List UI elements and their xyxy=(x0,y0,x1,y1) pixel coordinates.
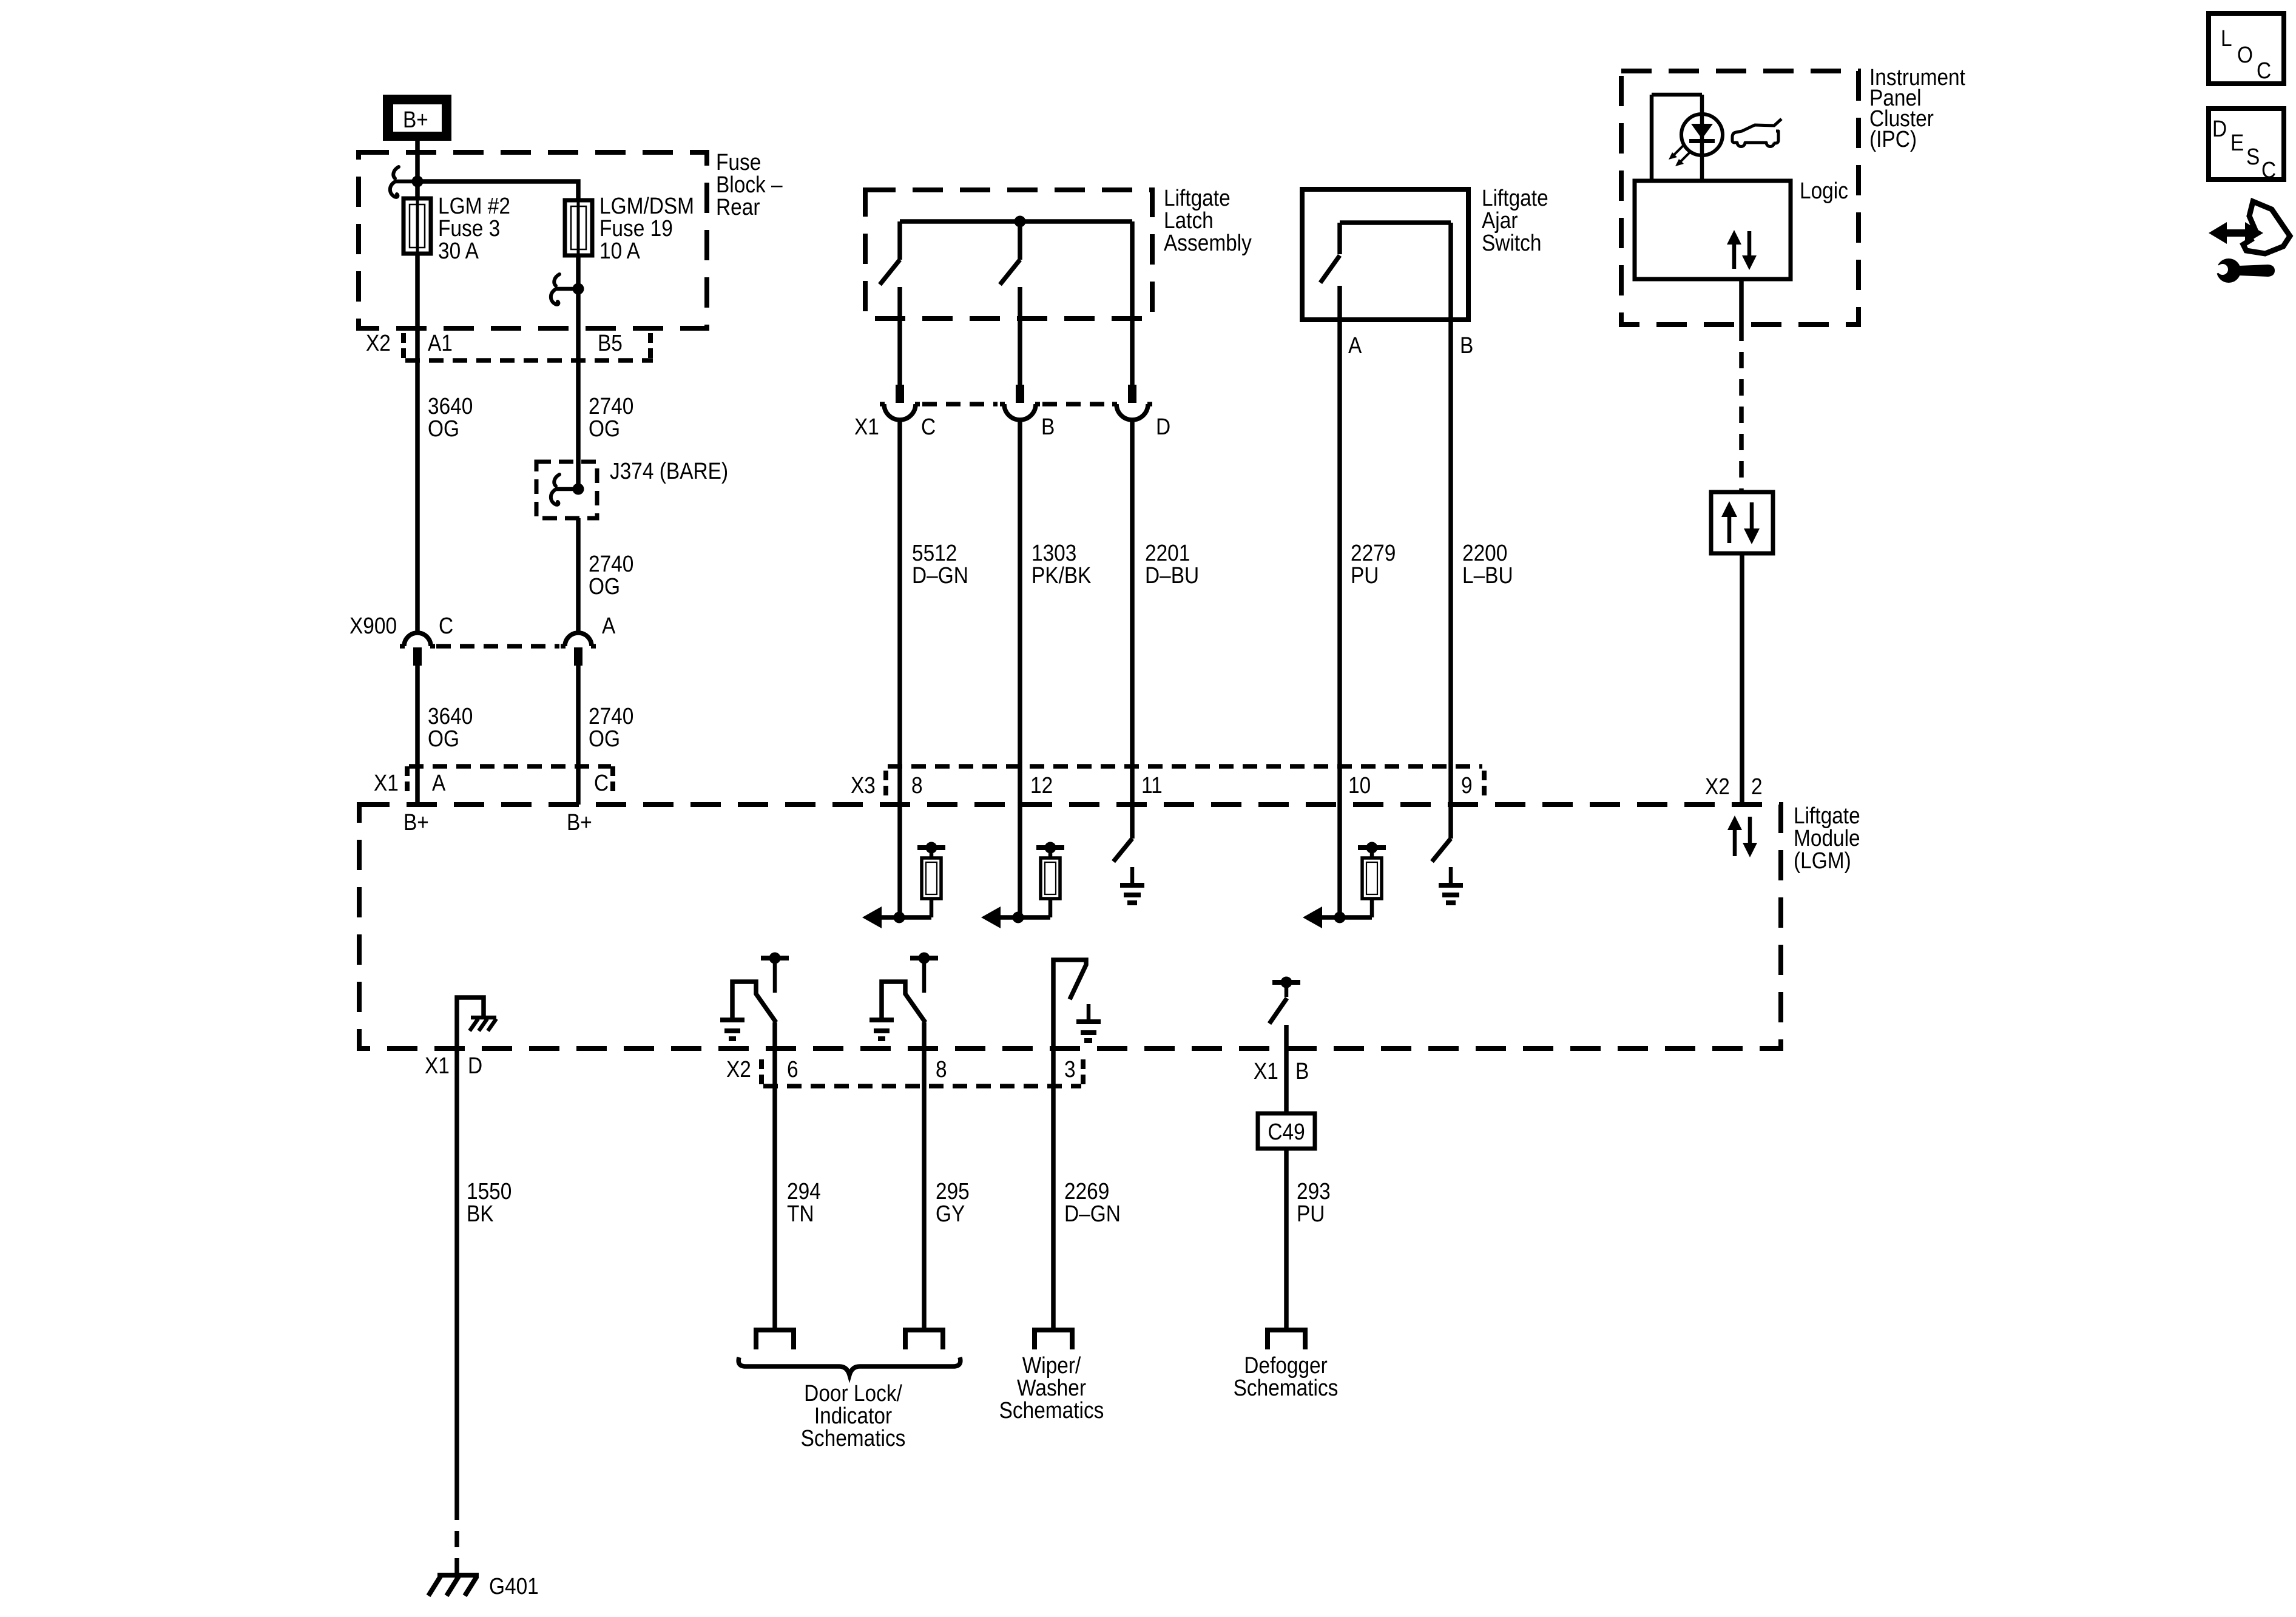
wire 2201 xyxy=(1130,420,1135,839)
wire 2200 xyxy=(1448,320,1453,839)
label G401 xyxy=(489,1573,539,1599)
pin 2 xyxy=(1751,774,1763,799)
svg-text:A: A xyxy=(1348,333,1362,358)
indicator housing xyxy=(1652,95,1702,181)
wire label 3640 OG lower xyxy=(428,703,473,751)
svg-text:8: 8 xyxy=(936,1056,947,1082)
svg-text:3: 3 xyxy=(1064,1056,1076,1082)
label Liftgate Latch Assembly xyxy=(1164,185,1252,255)
node below fuse 19 xyxy=(573,283,584,295)
label Instrument Panel Cluster (IPC) xyxy=(1869,64,1965,152)
pin A xyxy=(432,770,445,795)
serial data symbol (boxed arrows) xyxy=(1711,492,1773,553)
wiper switch pin 3 xyxy=(1053,960,1086,1048)
wire label 3640 OG xyxy=(428,393,473,441)
wire label 2740 OG below splice xyxy=(589,551,633,599)
case ground wire X1 D xyxy=(457,998,484,1048)
svg-text:X900: X900 xyxy=(349,613,397,638)
svg-text:D: D xyxy=(2212,116,2227,141)
wire 1303 xyxy=(1018,420,1022,917)
wire 294 TN xyxy=(772,1022,777,1330)
LED light rays xyxy=(1669,146,1690,166)
latch pin C xyxy=(880,385,936,439)
label Logic xyxy=(1800,178,1848,203)
svg-text:BK: BK xyxy=(467,1201,494,1226)
wire fuse F19 down xyxy=(576,255,581,490)
svg-text:OG: OG xyxy=(428,726,459,751)
svg-text:D–GN: D–GN xyxy=(912,562,968,588)
off-page terminal wire 295 xyxy=(905,1330,943,1349)
door lock switch terminal pin 6 xyxy=(761,953,789,993)
node: bus junction at B+ wire xyxy=(412,176,424,187)
pin 3 xyxy=(1064,1056,1076,1082)
svg-text:OG: OG xyxy=(589,573,620,599)
svg-text:GY: GY xyxy=(936,1201,965,1226)
wire 2269 D-GN xyxy=(1051,1048,1056,1330)
LOC reference box xyxy=(2209,13,2284,84)
svg-text:30 A: 30 A xyxy=(438,238,479,263)
wire B+ to fuse block xyxy=(415,141,420,254)
pin D xyxy=(468,1053,482,1078)
IPC logic block xyxy=(1635,181,1791,279)
label fuse F19 value xyxy=(599,193,694,263)
connector X900 body dashed line xyxy=(436,644,559,649)
connector X2 (bottom) row xyxy=(726,1056,1083,1086)
wire 293 PU xyxy=(1284,1025,1289,1330)
svg-text:C49: C49 xyxy=(1268,1119,1305,1144)
signal arrow pin 8 xyxy=(862,906,931,928)
label J374 (BARE) xyxy=(610,458,728,484)
label Fuse Block - Rear xyxy=(716,149,783,220)
logic block up/down arrows xyxy=(1727,230,1757,270)
clip terminal below fuse 19 xyxy=(551,274,578,305)
defogger switch terminal xyxy=(1272,977,1300,998)
door lock switch blade pin 6 xyxy=(732,982,776,1022)
connector end view icon (arrow, shell, wrench) xyxy=(2209,201,2290,283)
liftgate ajar switch (box) xyxy=(1302,189,1468,320)
defogger switch blade xyxy=(1269,998,1287,1024)
svg-text:B: B xyxy=(1460,333,1473,358)
svg-text:A1: A1 xyxy=(428,330,453,356)
resistor pull-up pin 8 xyxy=(917,842,945,918)
svg-text:(IPC): (IPC) xyxy=(1869,126,1917,152)
svg-text:PK/BK: PK/BK xyxy=(1032,562,1092,588)
svg-text:D–GN: D–GN xyxy=(1064,1201,1121,1226)
svg-text:X1: X1 xyxy=(1254,1058,1278,1084)
wire 5512 xyxy=(897,420,902,917)
svg-text:PU: PU xyxy=(1297,1201,1325,1226)
pin C xyxy=(594,770,609,795)
connector X2 (fuse block) pin row xyxy=(366,330,391,356)
chassis ground symbol xyxy=(470,1018,496,1031)
svg-text:B+: B+ xyxy=(403,107,428,132)
wire serial symbol to LGM X2 pin 2 xyxy=(1740,553,1744,805)
latch switch 1 xyxy=(880,221,900,385)
svg-text:Schematics: Schematics xyxy=(1234,1375,1339,1400)
wire label 294 TN xyxy=(787,1178,821,1226)
latch wire 3 xyxy=(1130,221,1135,385)
svg-text:12: 12 xyxy=(1030,772,1053,798)
liftgate-open car icon xyxy=(1732,119,1781,147)
svg-text:Schematics: Schematics xyxy=(999,1397,1104,1423)
door lock switch blade pin 8 xyxy=(882,982,925,1022)
pin 6 xyxy=(787,1056,799,1082)
svg-text:10: 10 xyxy=(1348,772,1371,798)
svg-text:9: 9 xyxy=(1461,772,1473,798)
ground G401 xyxy=(428,1575,479,1596)
svg-text:X3: X3 xyxy=(851,772,876,798)
connector X900 pin C xyxy=(400,613,453,666)
wire label 5512 D-GN xyxy=(912,540,968,588)
connector X900 pin A xyxy=(561,613,615,666)
connector X1 D row xyxy=(425,1053,450,1078)
svg-text:8: 8 xyxy=(911,772,923,798)
wire label 2200 L-BU xyxy=(1462,540,1513,588)
fuse block - rear (dashed box) xyxy=(359,152,707,328)
svg-text:B: B xyxy=(1041,414,1055,439)
latch pin B xyxy=(1000,385,1055,439)
svg-text:L–BU: L–BU xyxy=(1462,562,1513,588)
label Wiper/Washer Schematics xyxy=(999,1352,1104,1423)
node junction pin 8 xyxy=(894,912,905,923)
svg-text:A: A xyxy=(432,770,445,795)
svg-text:S: S xyxy=(2246,144,2260,169)
instrument panel cluster IPC (dashed box) xyxy=(1621,71,1859,325)
net label B+ at pin A xyxy=(403,809,429,835)
svg-text:C: C xyxy=(2257,58,2271,83)
node junction pin 10 xyxy=(1334,912,1346,923)
wire label 2269 D-GN xyxy=(1064,1178,1121,1226)
wire bus to fuse 19 xyxy=(417,181,578,255)
pin A1 xyxy=(428,330,453,356)
off-page terminal wire 2269 xyxy=(1035,1330,1072,1349)
svg-text:X1: X1 xyxy=(854,414,879,439)
resistor pull-up pin 12 xyxy=(1036,842,1064,918)
label Liftgate Module (LGM) xyxy=(1794,803,1860,873)
svg-text:OG: OG xyxy=(589,726,620,751)
wire label 2201 D-BU xyxy=(1145,540,1199,588)
off-page terminal wire 293 xyxy=(1268,1330,1305,1349)
latch switch 2 xyxy=(1000,221,1020,385)
liftgate latch assembly (dashed box) xyxy=(865,190,1152,319)
brace door lock group xyxy=(738,1357,961,1375)
svg-text:Assembly: Assembly xyxy=(1164,230,1252,255)
wire label 293 PU xyxy=(1297,1178,1331,1226)
pin 12 xyxy=(1030,772,1053,798)
wire fuse F3 down xyxy=(415,254,420,635)
wire label 2740 OG lower xyxy=(589,703,633,751)
svg-text:D: D xyxy=(468,1053,482,1078)
label Door Lock / Indicator Schematics xyxy=(801,1380,906,1451)
svg-text:X1: X1 xyxy=(374,770,399,795)
svg-text:D: D xyxy=(1156,414,1170,439)
wire logic to IPC edge xyxy=(1739,279,1744,325)
svg-text:G401: G401 xyxy=(489,1573,539,1599)
svg-text:11: 11 xyxy=(1141,772,1163,798)
latch connector dashed body xyxy=(922,402,1110,407)
serial arrows inside LGM xyxy=(1727,815,1757,857)
ground pin 9 xyxy=(1439,867,1463,903)
ajar pin A xyxy=(1348,333,1362,358)
svg-text:TN: TN xyxy=(787,1201,814,1226)
pin 11 xyxy=(1141,772,1163,798)
pin 9 xyxy=(1461,772,1473,798)
fuse F19 (LGM/DSM Fuse 19 10 A) xyxy=(565,200,592,255)
wire label 2740 OG xyxy=(589,393,633,441)
svg-text:C: C xyxy=(439,613,453,638)
ground at wiper switch xyxy=(1076,1004,1101,1041)
switch to ground pin 9 xyxy=(1432,839,1451,862)
svg-text:(LGM): (LGM) xyxy=(1794,848,1851,873)
wire 295 GY xyxy=(922,1022,927,1330)
liftgate module LGM (dashed box) xyxy=(359,805,1781,1048)
wire X900 C down xyxy=(415,666,420,805)
label fuse F3 value xyxy=(438,193,510,263)
pin 10 xyxy=(1348,772,1371,798)
wire 2740 below splice xyxy=(576,518,581,635)
clip terminal at fuse 3 feed xyxy=(390,167,417,197)
svg-text:B5: B5 xyxy=(598,330,623,356)
svg-text:OG: OG xyxy=(589,416,620,441)
svg-text:10 A: 10 A xyxy=(599,238,640,263)
switch to ground pin 11 xyxy=(1113,839,1132,862)
connector X1 B row xyxy=(1254,1058,1278,1084)
splice J374 (BARE) dashed box xyxy=(536,462,597,518)
svg-text:L: L xyxy=(2221,25,2232,51)
splice J374 clip xyxy=(551,474,584,505)
latch pin D xyxy=(1112,385,1170,439)
signal arrow pin 10 xyxy=(1303,906,1372,928)
node junction pin 12 xyxy=(1013,912,1024,923)
wire label 295 GY xyxy=(936,1178,970,1226)
signal arrow pin 12 xyxy=(981,906,1050,928)
svg-text:6: 6 xyxy=(787,1056,799,1082)
svg-text:B+: B+ xyxy=(403,809,429,835)
wire label 1303 PK/BK xyxy=(1032,540,1092,588)
connector X2 (LGM) label xyxy=(1705,774,1730,799)
wire 1550 BK xyxy=(454,1048,459,1573)
svg-text:A: A xyxy=(602,613,615,638)
svg-text:PU: PU xyxy=(1351,562,1379,588)
pin 8 xyxy=(936,1056,947,1082)
pin 8 xyxy=(911,772,923,798)
pin B xyxy=(1295,1058,1309,1084)
ground pin 11 xyxy=(1120,867,1144,903)
node latch bus junction xyxy=(1015,216,1026,228)
svg-text:D–BU: D–BU xyxy=(1145,562,1199,588)
svg-text:Logic: Logic xyxy=(1800,178,1848,203)
connector X2 separators and body line xyxy=(403,333,653,360)
svg-text:C: C xyxy=(921,414,936,439)
svg-text:J374 (BARE): J374 (BARE) xyxy=(610,458,728,484)
wire 2279 xyxy=(1337,320,1342,917)
ajar switch internal circuit xyxy=(1320,223,1451,320)
inline connector C49 xyxy=(1258,1113,1315,1149)
door lock switch terminal pin 8 xyxy=(910,953,938,993)
pin B5 xyxy=(598,330,623,356)
off-page terminal wire 294 xyxy=(756,1330,794,1349)
svg-text:2: 2 xyxy=(1751,774,1763,799)
ground at door lock switch pin 6 xyxy=(720,1020,745,1039)
svg-text:C: C xyxy=(2261,157,2276,183)
svg-text:Schematics: Schematics xyxy=(801,1425,906,1451)
svg-text:Rear: Rear xyxy=(716,194,760,220)
ground at door lock switch pin 8 xyxy=(869,1020,894,1039)
connector X1 (LGM top) row xyxy=(374,766,613,795)
resistor pull-up pin 10 xyxy=(1358,842,1386,918)
svg-text:O: O xyxy=(2237,42,2253,67)
svg-text:E: E xyxy=(2230,130,2244,155)
svg-text:X2: X2 xyxy=(726,1056,751,1082)
svg-text:C: C xyxy=(594,770,609,795)
svg-text:X2: X2 xyxy=(366,330,391,356)
latch internal bus wire xyxy=(900,219,1132,224)
DESC reference box xyxy=(2209,109,2284,183)
dashed wire IPC to serial symbol xyxy=(1739,325,1744,492)
label Liftgate Ajar Switch xyxy=(1482,185,1548,255)
svg-text:X2: X2 xyxy=(1705,774,1730,799)
wire label 2279 PU xyxy=(1351,540,1396,588)
net label B+ at pin C xyxy=(567,809,592,835)
svg-text:B: B xyxy=(1295,1058,1309,1084)
wire label 1550 BK xyxy=(467,1178,512,1226)
svg-text:B+: B+ xyxy=(567,809,592,835)
svg-text:Switch: Switch xyxy=(1482,230,1541,255)
indicator LED D1 xyxy=(1681,114,1723,155)
connector X1 (latch) label xyxy=(854,414,879,439)
svg-text:X1: X1 xyxy=(425,1053,450,1078)
ajar pin B xyxy=(1460,333,1473,358)
connector X3 row xyxy=(851,766,1484,798)
fuse F3 (LGM #2 Fuse 3 30 A) xyxy=(403,198,431,254)
label Defogger Schematics xyxy=(1234,1352,1339,1400)
wire X900 A down xyxy=(576,666,581,805)
connector X900 xyxy=(349,613,397,638)
power symbol B+ xyxy=(383,95,451,141)
svg-text:OG: OG xyxy=(428,416,459,441)
